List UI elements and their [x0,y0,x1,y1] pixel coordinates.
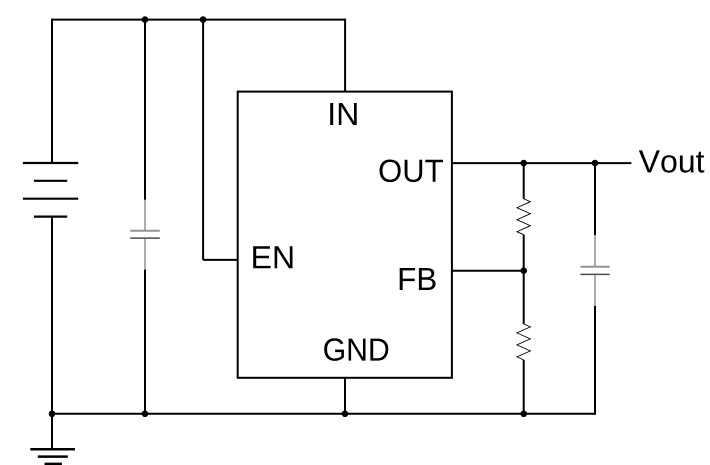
regulator U1 [238,92,452,378]
pin label EN [253,246,292,268]
junction top cap [142,16,149,23]
junction OUT R1 [520,160,527,167]
wire R2 bottom lead [523,360,525,414]
pin label FB [400,268,436,290]
junction bottom C1 [142,410,149,417]
capacitor C2 [580,235,609,306]
resistor R2 [517,324,531,360]
resistor R1 [517,199,531,235]
node Vout label [639,150,705,172]
wire GND drop [344,378,346,414]
junction top EN [200,16,207,23]
junction bottom R2 [520,410,527,417]
wire top rail [52,19,345,21]
wire OUT [452,162,632,164]
wire input cap top [144,19,146,200]
ground [30,414,75,464]
battery V1 [23,163,78,217]
pin label GND [324,338,388,361]
junction FB [520,267,527,274]
pin label IN [330,103,357,125]
wire bottom rail [52,413,596,415]
wire input cap bottom [144,270,146,414]
junction bottom GND [342,410,349,417]
junction OUT C2 [592,160,599,167]
wire R1 to FB [523,235,525,271]
pin label OUT [380,160,443,183]
junction bottom battery [49,410,56,417]
wire R2 top lead [523,271,525,324]
wire FB [452,270,524,272]
wire output cap bottom [594,306,596,415]
wire R1 top lead [523,163,525,199]
wire EN drop [202,19,204,260]
wire IN drop [344,19,346,92]
wire output cap top [594,163,596,235]
capacitor C1 [130,200,160,270]
wire EN horizontal [203,259,238,261]
wire battery top lead [51,19,53,163]
wire battery bottom lead [51,217,53,414]
